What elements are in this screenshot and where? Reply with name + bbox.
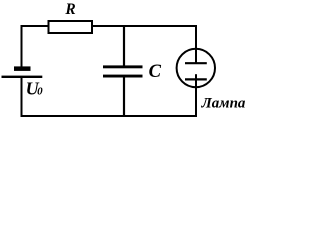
svg-text:U0: U0 (26, 79, 43, 99)
svg-text:R: R (64, 1, 75, 18)
svg-text:Лампа: Лампа (201, 96, 246, 112)
svg-text:C: C (149, 62, 162, 82)
